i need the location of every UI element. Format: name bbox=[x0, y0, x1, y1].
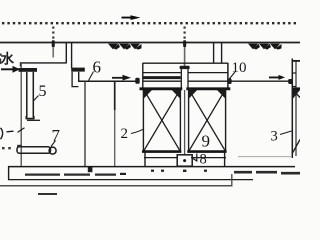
media box B diagonal 2 bbox=[189, 89, 226, 151]
media leg right bbox=[224, 152, 226, 167]
outlet pipe left boss bbox=[228, 79, 232, 84]
media box A thick top bbox=[140, 87, 183, 90]
sludge pipe 7 nub bbox=[17, 145, 22, 147]
feed pipe 5 left wall bbox=[26, 72, 28, 118]
sludge dotted stub bbox=[2, 147, 13, 149]
label 5 leader bbox=[34, 96, 39, 101]
media support plate B bbox=[191, 157, 226, 159]
downpipe 6 right wall bbox=[71, 43, 73, 69]
water-level marks (left) bbox=[108, 44, 142, 50]
slab hatch dash 2 bbox=[64, 174, 90, 176]
right base dark band 1 bbox=[234, 171, 252, 174]
label 10 leader bbox=[228, 72, 235, 81]
water-level marks (right) bbox=[248, 44, 282, 50]
media support plate A bbox=[144, 157, 178, 159]
vent dotted riser (center) bbox=[184, 27, 186, 41]
blower box 8 bbox=[177, 155, 192, 166]
transfer line end boss bbox=[135, 78, 139, 84]
downpipe 6 outlet bar bbox=[71, 68, 85, 72]
media leg left bbox=[144, 152, 146, 167]
media box B thick bottom bbox=[187, 150, 226, 153]
foundation slab left end bbox=[8, 166, 10, 180]
water surface line bbox=[0, 42, 300, 44]
ground line bbox=[0, 185, 233, 187]
blower box 8 dot bbox=[183, 159, 186, 162]
label 1 leader bbox=[7, 130, 14, 133]
tank3 wall rung lower bbox=[292, 86, 296, 88]
vent blob at waterline (center) bbox=[183, 40, 186, 47]
media box B diagonal 1 bbox=[189, 89, 226, 151]
media box A diagonal 1 bbox=[144, 89, 181, 151]
slab hatch dash 1 bbox=[25, 174, 60, 176]
svg-text:5: 5 bbox=[39, 83, 47, 100]
label 7 leader bbox=[51, 141, 56, 147]
svg-text:6: 6 bbox=[93, 58, 102, 77]
media box B corner wedge TL bbox=[189, 90, 197, 99]
outlet pipe to tank3 bbox=[230, 80, 291, 82]
collection trough left wall bbox=[142, 63, 144, 89]
svg-text:水: 水 bbox=[1, 51, 15, 67]
tank1 top channel line bbox=[21, 63, 67, 67]
riser pipe cap bbox=[180, 66, 190, 69]
label 1 (clipped at edge) bbox=[1, 128, 3, 139]
tank1/tank2 dividing wall bbox=[72, 72, 78, 87]
label 2 leader bbox=[131, 129, 144, 134]
downcomer 10 right wall bbox=[221, 43, 223, 64]
tank3 rim tick bbox=[292, 60, 300, 62]
vent blob at waterline (left) bbox=[52, 40, 55, 47]
tank3 media corner wedge bbox=[293, 90, 300, 99]
slab anchor blob bbox=[88, 167, 93, 172]
riser pipe lower run bbox=[184, 90, 186, 155]
foundation slab bottom bbox=[8, 179, 253, 181]
svg-text:9: 9 bbox=[202, 132, 211, 151]
downpipe 6 throat left bbox=[78, 72, 80, 82]
tank3 inner wall bbox=[295, 61, 297, 156]
media box A diagonal 2 bbox=[144, 89, 181, 151]
collection trough bottom line bbox=[143, 80, 228, 82]
vent stub below (left) bbox=[52, 47, 54, 58]
inlet arrow bbox=[1, 66, 20, 73]
trough water shading bar bbox=[144, 76, 181, 79]
feed pipe 5 right wall bbox=[32, 72, 34, 118]
gas flow arrow bbox=[122, 15, 141, 20]
media box A thick bottom bbox=[142, 150, 181, 153]
svg-text:2: 2 bbox=[121, 126, 129, 142]
tank3 media diagonal lower bbox=[293, 140, 300, 153]
right base dark band 3 bbox=[281, 172, 300, 175]
downpipe 6 left wall bbox=[65, 43, 67, 64]
media box B frame bbox=[189, 89, 226, 152]
label 8 tick bbox=[193, 154, 197, 162]
riser pipe right wall bbox=[187, 69, 189, 89]
slab hatch dash 3 bbox=[95, 174, 116, 176]
feed pipe 5 bottom cap bbox=[26, 116, 34, 119]
media box B thick top bbox=[186, 87, 230, 90]
flow arrow on transfer line bbox=[112, 75, 131, 81]
page dash bbox=[38, 193, 57, 195]
svg-text:8: 8 bbox=[200, 152, 207, 168]
base tick bbox=[231, 174, 233, 186]
label 3 leader bbox=[280, 131, 292, 135]
collection trough right wall bbox=[227, 63, 229, 90]
downcomer 10 left wall bbox=[213, 43, 215, 64]
riser pipe left wall bbox=[180, 69, 182, 89]
tank3 left wall bbox=[291, 59, 293, 159]
media box A frame bbox=[143, 89, 180, 152]
tank2 inner baffle bbox=[114, 81, 116, 111]
tank2 transfer line bbox=[78, 80, 138, 82]
collection trough mid line bbox=[143, 72, 228, 74]
tank3 media thick top (clipped) bbox=[293, 87, 300, 90]
collection trough top bbox=[143, 62, 229, 64]
tank3 inner bottom bbox=[238, 156, 292, 158]
media box A corner wedge TL bbox=[144, 90, 152, 99]
svg-text:3: 3 bbox=[271, 129, 278, 145]
right base dark band 2 bbox=[256, 171, 277, 174]
vent dotted riser (left) bbox=[52, 27, 54, 41]
outlet pipe right boss bbox=[288, 79, 292, 84]
sludge pipe 7 end bulb bbox=[49, 147, 56, 154]
vent stub to riser cap bbox=[184, 47, 186, 66]
feed pipe 5 mouth cap bbox=[19, 68, 38, 72]
slab dots bbox=[120, 170, 207, 175]
svg-text:7: 7 bbox=[52, 126, 61, 145]
sludge pipe 7 body bbox=[17, 147, 51, 154]
foundation slab top bbox=[8, 166, 295, 168]
media box A corner wedge TR bbox=[172, 90, 180, 99]
tank3 media diagonal upper bbox=[293, 90, 300, 98]
label 6 leader bbox=[89, 72, 94, 81]
media box B corner wedge TR bbox=[217, 90, 225, 99]
feed pipe 5 foot bbox=[27, 119, 40, 121]
tank3 wall rung upper bbox=[292, 72, 296, 74]
gas dashed line (top) bbox=[2, 22, 298, 24]
flow arrow on outlet pipe bbox=[269, 75, 285, 80]
clipped character sliver at edge bbox=[0, 54, 2, 56]
tank1 left wall bbox=[20, 63, 22, 167]
